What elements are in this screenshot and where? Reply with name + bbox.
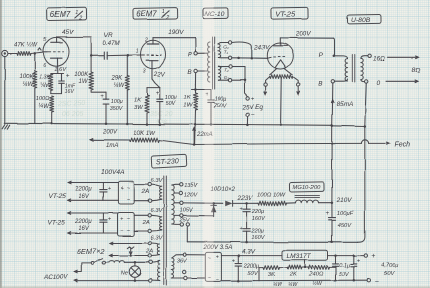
wire 100K to ground rail: [34, 88, 36, 124]
hum balance resistor: [270, 75, 293, 79]
svg-text:105V: 105V: [180, 208, 194, 214]
svg-text:+: +: [121, 185, 124, 191]
svg-text:100Ω 10W: 100Ω 10W: [257, 192, 286, 198]
svg-text:1.3K: 1.3K: [39, 74, 51, 80]
label 223V: [237, 195, 253, 202]
primary terminals: [149, 261, 152, 283]
label 36V: [177, 258, 188, 264]
tap 25V: [174, 214, 213, 224]
label box 6EM7 (second half): [133, 8, 178, 21]
NC-10 primary winding: [197, 42, 209, 82]
winding 6.3V 2A (1) terminals: [148, 183, 151, 202]
rail junction dot: [331, 124, 334, 127]
wire 100u350V to ground rail: [105, 104, 108, 125]
bridge + output wire: [221, 254, 282, 257]
rect1 to winding wires: [134, 185, 148, 201]
svg-text:350V: 350V: [110, 106, 124, 112]
svg-text:35C 20: 35C 20: [150, 111, 173, 118]
wire 100K1W to cap node: [91, 90, 106, 92]
node a marker: [38, 48, 41, 51]
heater line VT-25 a bottom: [68, 199, 119, 202]
output - wire: [221, 279, 367, 282]
wire plate drop: [90, 37, 93, 57]
svg-text:G₂: G₂: [224, 75, 229, 80]
wire bias minus to rail: [246, 116, 249, 126]
OPT core: [352, 55, 355, 82]
wire VR node to V2 grid: [128, 54, 141, 56]
wire B to primary bottom: [335, 79, 348, 81]
label VT-25 (a): [49, 193, 67, 200]
wire secondary 0 down: [364, 83, 367, 127]
svg-text:+: +: [155, 91, 159, 97]
wire grid node down: [34, 54, 36, 71]
svg-text:+: +: [371, 253, 375, 260]
OPT secondary 16ohm terminal: [361, 54, 385, 62]
svg-text:100μ: 100μ: [215, 96, 227, 102]
label 8ohm: [412, 67, 421, 74]
svg-text:¼W: ¼W: [23, 82, 35, 88]
svg-text:2: 2: [165, 15, 169, 21]
svg-text:100μF: 100μF: [337, 211, 354, 217]
V2 plate: [274, 38, 287, 46]
wire 10K to 200V rail: [159, 140, 194, 144]
capacitor 4700u 50V: [351, 256, 399, 282]
svg-text:29K: 29K: [111, 76, 124, 82]
label box 6EM7 (first half): [47, 7, 87, 21]
wire decouple bus: [192, 89, 212, 91]
resistor 100K 1/4W (grid leak): [20, 71, 37, 88]
wire VR top: [126, 55, 128, 75]
NC-10 sec1 terminal G1: [224, 41, 232, 50]
volume VR 0.47M label: [103, 32, 121, 47]
V2 filament: [275, 60, 286, 68]
bias label 25V Eg: [242, 104, 264, 111]
svg-text:210V: 210V: [336, 197, 353, 204]
rectifier box 2: [118, 213, 135, 237]
OPT primary winding: [345, 59, 347, 81]
NC-10 core: [213, 37, 215, 89]
capacitor 220u 160V (bottom): [239, 212, 265, 242]
wire to coupling cap: [91, 55, 103, 57]
resistor 47K 1/2W: [15, 42, 39, 56]
svg-text:¼W: ¼W: [38, 104, 50, 110]
wire sec2 jumpers: [232, 67, 246, 82]
label box NC-10: [203, 8, 228, 19]
resistor 1K 1W decoupling: [183, 90, 197, 111]
svg-text:0.1μ: 0.1μ: [339, 263, 350, 269]
svg-text:3W: 3W: [134, 105, 143, 111]
svg-text:240Ω: 240Ω: [308, 272, 324, 278]
svg-text:50V: 50V: [248, 271, 259, 277]
svg-text:100K: 100K: [20, 74, 35, 80]
OPT secondary winding: [361, 58, 363, 79]
wire sec1 top arc: [232, 42, 252, 58]
output arrow 0: [386, 80, 418, 83]
svg-text:3K: 3K: [268, 272, 276, 278]
capacitor 2200u 50V: [232, 256, 260, 282]
svg-text:+: +: [108, 186, 112, 192]
svg-text:16V: 16V: [78, 194, 90, 200]
label VT-25 (b): [48, 220, 66, 227]
wire 0V tap down: [186, 226, 188, 242]
label 2A (1): [141, 189, 149, 195]
label 10D10x2: [211, 187, 236, 193]
36V winding top terminal: [172, 253, 187, 258]
label box ST-230: [151, 154, 187, 168]
power switch: [91, 259, 105, 265]
svg-text:2SC 250: 2SC 250: [57, 100, 86, 108]
svg-text:200V: 200V: [294, 31, 311, 38]
svg-text:T₂: T₂: [224, 68, 229, 73]
svg-text:LM317T: LM317T: [287, 253, 312, 260]
terminal P of NC-10: [187, 52, 197, 59]
wire 240R to output: [329, 266, 336, 268]
svg-text:45V: 45V: [62, 29, 74, 36]
triode V1b 6EM7 envelope: [141, 40, 166, 68]
capacitor 100u 250V: [205, 90, 228, 110]
svg-text:2A: 2A: [141, 189, 149, 195]
filter cap 100uF 450V: [325, 203, 353, 243]
svg-text:160V: 160V: [251, 235, 265, 241]
svg-text:¼W: ¼W: [273, 282, 283, 288]
OPT secondary 0 terminal: [361, 80, 381, 87]
filament leg left: [270, 69, 277, 75]
svg-text:VT-25: VT-25: [49, 193, 67, 200]
svg-text:−: −: [375, 278, 379, 285]
resistor 100R 1/4W: [36, 96, 54, 112]
label 210V: [336, 197, 353, 204]
svg-text:6EM7: 6EM7: [136, 10, 157, 19]
output - terminal: [367, 278, 379, 285]
svg-text:+: +: [216, 255, 219, 261]
svg-text:~: ~: [127, 197, 131, 203]
svg-text:100μ: 100μ: [111, 99, 123, 105]
svg-text:+: +: [357, 258, 361, 264]
svg-text:+: +: [325, 210, 329, 217]
svg-text:3: 3: [143, 68, 146, 74]
svg-text:VT-25: VT-25: [48, 220, 66, 227]
PSU 0V line: [187, 241, 358, 244]
label 100V 4A: [101, 169, 125, 176]
capacitor 2200u 16V (b): [74, 213, 112, 233]
AC line bottom: [74, 279, 148, 282]
svg-text:10K 1W: 10K 1W: [134, 131, 157, 137]
diode D1 10D10: [225, 201, 246, 207]
resistor 1K 3W cathode: [134, 88, 149, 113]
label 4.3V: [242, 248, 256, 255]
svg-text:6: 6: [43, 63, 46, 69]
ground rail: [5, 57, 365, 126]
svg-text:B: B: [187, 69, 192, 76]
ground symbol: [3, 125, 11, 130]
capacitor 100u 350V: [100, 92, 124, 112]
svg-text:25V Eg: 25V Eg: [242, 104, 264, 111]
label box VT-25: [271, 7, 308, 19]
wire VR to ground rail: [126, 90, 129, 125]
svg-text:ST-230: ST-230: [156, 156, 179, 166]
wire sec2 to bias: [245, 67, 248, 97]
winding 6.3V 2A (3): [151, 243, 159, 256]
V1b plate: [147, 38, 159, 44]
svg-text:200V: 200V: [102, 130, 118, 136]
svg-text:50V: 50V: [339, 271, 350, 277]
svg-text:VT-25: VT-25: [275, 9, 296, 18]
svg-text:450V: 450V: [338, 223, 353, 229]
svg-text:T₁: T₁: [224, 49, 229, 54]
wire grid line to VT-25: [232, 57, 268, 60]
resistor 3K: [259, 266, 280, 278]
LM317 adj lead: [303, 260, 306, 268]
B+ column to PSU: [331, 125, 334, 204]
svg-text:50V: 50V: [384, 271, 395, 277]
wire caps to 0V line: [245, 231, 248, 243]
svg-text:223V: 223V: [237, 195, 253, 202]
HV secondary winding: [172, 185, 174, 224]
tube V2 VT-25 envelope: [267, 43, 293, 69]
svg-text:135V: 135V: [184, 183, 198, 189]
filament leg right: [285, 69, 293, 75]
NC-10 sec1 terminal T1: [224, 49, 232, 59]
coupling capacitor 0.1u: [104, 52, 107, 59]
svg-text:¼W: ¼W: [114, 83, 126, 89]
svg-text:P: P: [187, 52, 192, 59]
svg-text:+: +: [108, 217, 112, 223]
label P (OPT): [319, 52, 324, 59]
LM317 output wire: [328, 254, 365, 257]
svg-text:220μ: 220μ: [250, 228, 263, 234]
filament supply terminal right: [293, 77, 300, 95]
svg-text:P: P: [319, 52, 324, 59]
svg-text:250V: 250V: [213, 103, 228, 109]
svg-text:100K: 100K: [74, 72, 89, 78]
36V winding bottom terminal: [172, 276, 188, 279]
capacitor 2200u 16V (a): [74, 183, 112, 201]
labels quarter watt: [273, 280, 323, 288]
svg-text:MG10-200: MG10-200: [293, 185, 321, 191]
V1b cathode: [146, 60, 158, 68]
svg-text:B: B: [318, 81, 323, 88]
label Fech: [395, 141, 411, 148]
wire to grid node a: [31, 52, 44, 55]
wire 100R to ground rail: [50, 112, 53, 125]
AC switch feed corner: [74, 263, 91, 273]
pin 6 label: [43, 63, 46, 69]
wire OPT B down with 85mA arrow: [331, 83, 352, 125]
wire 36V to bridge: [187, 255, 206, 278]
svg-text:VR: VR: [104, 32, 113, 39]
capacitor 1mF 16V bypass: [59, 72, 76, 95]
NC-10 sec2 terminal G2: [224, 75, 232, 82]
svg-text:+: +: [100, 94, 104, 100]
svg-text:06 205: 06 205: [62, 111, 84, 118]
bridge rectifier 200V 3.5A: [205, 252, 221, 283]
svg-text:2: 2: [78, 16, 82, 22]
V1b cathode label 22V: [153, 71, 166, 78]
wire 190V plate line: [153, 29, 195, 38]
node 223V: [245, 202, 248, 205]
heater line VT-25 b top: [68, 212, 118, 215]
bias terminal minus: [246, 112, 255, 119]
label box MG10-200: [289, 182, 324, 192]
wire jack to R 47K: [8, 53, 17, 55]
label 6EM7x2: [77, 247, 105, 256]
svg-text:−: −: [251, 112, 255, 119]
wire cathode bus: [51, 73, 64, 75]
label 6.3V (1): [151, 178, 164, 184]
wire B down: [194, 73, 197, 91]
svg-text:~: ~: [127, 185, 131, 191]
svg-text:6EM7×2: 6EM7×2: [77, 247, 105, 256]
svg-text:243V: 243V: [254, 45, 271, 52]
svg-text:1: 1: [136, 49, 139, 55]
winding 6.3V 2A (3) terminals: [148, 241, 151, 257]
NC-10 secondary winding 2: [218, 66, 228, 80]
NC-10 sec2 terminal T2: [224, 65, 232, 73]
input jack J1: [2, 50, 8, 56]
svg-text:6.3V: 6.3V: [151, 178, 164, 184]
label 6.3V (2): [151, 208, 164, 214]
V1a grid: [43, 51, 63, 53]
winding 6.3V 2A (2): [151, 215, 161, 231]
V1a plate: [51, 37, 63, 42]
output arrow 16ohm: [388, 56, 419, 59]
filament supply terminal left: [264, 77, 270, 95]
pin 5 label: [44, 37, 47, 43]
wire 1K3W to ground rail: [146, 113, 149, 125]
svg-text:10D10×2: 10D10×2: [211, 187, 236, 193]
wire 200V plate line: [280, 31, 333, 39]
label 2A (2): [142, 220, 150, 226]
label 6.3V (3): [151, 236, 164, 242]
resistor 1.3K 1/4W: [39, 74, 53, 91]
wire cap to VR node: [107, 54, 129, 57]
svg-text:16V: 16V: [65, 89, 75, 95]
wire 1K to 200V rail: [193, 110, 197, 146]
svg-text:85mA: 85mA: [337, 101, 353, 108]
svg-text:220μ: 220μ: [251, 209, 264, 215]
return column to PSU: [358, 126, 365, 242]
tap 105V: [174, 201, 194, 214]
pin 2 label: [144, 37, 148, 43]
svg-text:6.3V: 6.3V: [151, 208, 164, 214]
svg-text:190V: 190V: [168, 29, 184, 36]
wire 100u250V to ground rail: [210, 102, 213, 125]
36V winding mid terminal: [183, 270, 186, 273]
svg-text:Ne: Ne: [121, 270, 128, 276]
svg-text:47K ½W: 47K ½W: [15, 42, 39, 49]
svg-text:8Ω: 8Ω: [412, 67, 421, 74]
svg-text:1K: 1K: [184, 95, 192, 101]
svg-text:2200μ: 2200μ: [74, 187, 92, 193]
ST-230 primary winding: [152, 260, 160, 281]
V1a cathode label 1.6V: [54, 67, 67, 73]
svg-text:16V: 16V: [78, 226, 90, 232]
svg-text:5: 5: [44, 37, 47, 43]
V1b grid: [141, 54, 162, 56]
svg-text:−: −: [216, 277, 219, 283]
pin 3 label: [143, 68, 146, 74]
bleed-through faint text: [57, 100, 173, 126]
svg-text:160V: 160V: [252, 216, 266, 222]
rect2 to winding wires: [134, 215, 148, 231]
rectifier box 1: [118, 181, 134, 204]
svg-text:6EM7: 6EM7: [50, 10, 71, 19]
tap 120V: [174, 191, 198, 198]
svg-text:1W: 1W: [183, 103, 192, 109]
capacitor 100u 50V bypass: [155, 88, 177, 126]
NC-10 secondary winding 1: [218, 43, 228, 58]
svg-text:2200μ: 2200μ: [243, 263, 260, 269]
ST-230 core: [164, 176, 167, 285]
winding 6.3V 2A (2) terminals: [148, 214, 151, 233]
wire cathode net bus: [147, 87, 160, 89]
terminal B (OPT): [318, 80, 334, 88]
svg-text:¼W: ¼W: [40, 83, 52, 89]
V1a cathode: [51, 58, 63, 73]
svg-text:1K: 1K: [134, 97, 142, 103]
heater line 6EM7 bottom: [110, 254, 149, 257]
svg-text:0: 0: [377, 80, 381, 87]
svg-text:22V: 22V: [153, 71, 166, 78]
resistor 10K 1W dropper: [130, 131, 160, 142]
svg-text:Fech: Fech: [395, 141, 411, 148]
svg-text:6.3V: 6.3V: [151, 236, 164, 242]
winding 6.3V 2A (1): [151, 185, 161, 201]
heater line VT-25 a top: [68, 181, 119, 184]
regulator LM317T: [282, 250, 328, 260]
wire cathode net bottom: [51, 91, 62, 94]
resistor 100K 1W plate load: [74, 56, 93, 90]
rectifier feed wire: [183, 202, 223, 204]
feed arrow 200V 1mA: [90, 130, 129, 149]
svg-text:36V: 36V: [177, 258, 188, 264]
capacitor 0.1u 50V: [333, 256, 351, 282]
svg-text:4,700μ: 4,700μ: [381, 263, 400, 269]
choke MG10-200: [287, 195, 332, 203]
wire cathode down: [152, 68, 160, 87]
pin 1 label: [136, 49, 139, 55]
current arrow 22mA: [193, 128, 213, 143]
svg-text:1W: 1W: [79, 79, 89, 85]
svg-text:2A: 2A: [142, 220, 150, 226]
chassis arrow: [127, 246, 134, 254]
svg-text:120V: 120V: [184, 192, 198, 198]
terminal B of NC-10: [187, 69, 197, 76]
label box U-80B: [347, 15, 381, 24]
svg-text:100V4A: 100V4A: [101, 169, 125, 176]
svg-text:AC100V: AC100V: [44, 275, 68, 281]
svg-text:¼W: ¼W: [288, 282, 298, 288]
svg-text:50V: 50V: [166, 101, 177, 107]
label 200V 3.5A: [203, 244, 233, 251]
svg-text:U-80B: U-80B: [351, 17, 371, 24]
label 243V: [254, 45, 271, 52]
bias terminal plus: [246, 95, 255, 102]
neon lamp Ne: [121, 261, 141, 282]
svg-text:+: +: [120, 216, 123, 222]
wire plate to P terminal: [194, 38, 196, 52]
svg-text:2: 2: [144, 37, 148, 43]
output + terminal: [364, 253, 375, 260]
svg-text:100Ω: 100Ω: [36, 96, 50, 102]
resistor 2K: [280, 266, 302, 278]
svg-text:2200μ: 2200μ: [74, 219, 92, 225]
svg-text:508: 508: [156, 119, 167, 126]
OPT primary top junction: [333, 55, 348, 59]
tap 135V: [172, 183, 199, 190]
svg-text:16Ω: 16Ω: [373, 55, 385, 62]
filament center tap wire: [279, 79, 282, 126]
